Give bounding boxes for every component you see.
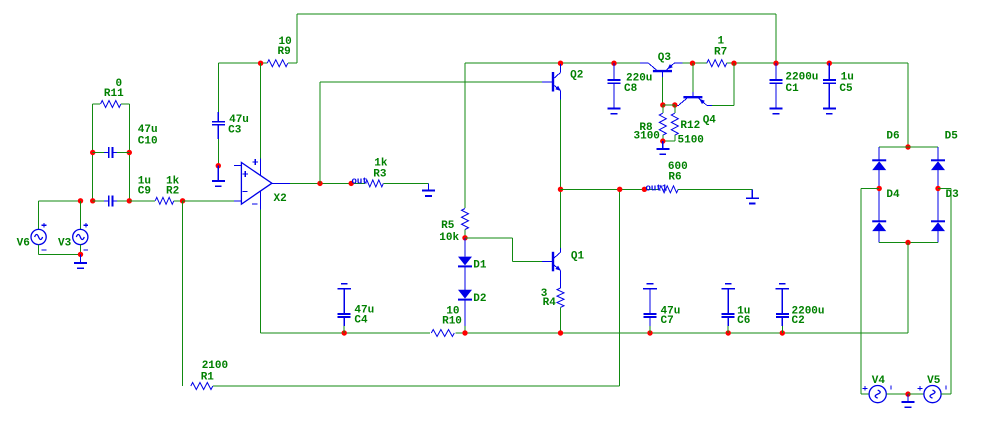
wire V5 right lead (941, 393, 951, 395)
wire R11 right (121, 103, 129, 105)
wire opamp V- supply down (260, 209, 262, 333)
wire V3 top lead (79, 201, 81, 230)
wire V3 bottom lead (79, 245, 81, 255)
svg-text:3100: 3100 (634, 131, 660, 143)
node R5/D1 junction (462, 235, 467, 240)
ground below V3 (74, 254, 87, 268)
svg-text:1k: 1k (374, 157, 388, 169)
opamp V+ marker (252, 159, 258, 165)
node R7 left / Q4 base (690, 61, 695, 66)
V6 minus marker (42, 249, 47, 251)
svg-text:C10: C10 (138, 135, 158, 147)
wire bridge bottom (879, 242, 938, 244)
node C3/opamp+ junction (216, 163, 221, 168)
wire loop right branch (128, 104, 130, 201)
svg-text:C5: C5 (839, 83, 853, 95)
svg-text:C8: C8 (624, 83, 638, 95)
resistor R5 (462, 209, 469, 230)
transistor Q1 (542, 248, 561, 288)
resistor R3 (365, 180, 383, 187)
wire C10 right (117, 152, 129, 154)
open terminal above C4 (337, 284, 351, 289)
wire to Q2 base (320, 81, 542, 83)
node loop right bottom (127, 198, 132, 203)
source V5 (924, 386, 941, 403)
wire C2 bottom lead (781, 326, 783, 333)
node R7 right (731, 61, 736, 66)
wire R3 to ground (383, 182, 428, 184)
wire bridge top (879, 146, 938, 148)
capacitor C5 (823, 63, 836, 108)
node output junction (317, 181, 322, 186)
resistor R2 (155, 197, 174, 204)
node R8 bottom junction (660, 138, 665, 143)
V6 plus marker (42, 223, 47, 228)
resistor R8 (659, 113, 666, 135)
capacitor C8 (608, 63, 621, 108)
node V+ junction (258, 61, 263, 66)
diode D6-D4 leads (878, 170, 880, 221)
node C5 top (827, 61, 832, 66)
wire to opamp - input (183, 200, 234, 202)
wire R8-R12 bottoms (663, 140, 675, 142)
wire V4 left lead (861, 393, 869, 395)
wire down to R5 (464, 63, 466, 208)
wire R12 top lead (674, 105, 676, 113)
node Q2 collector (558, 61, 563, 66)
svg-text:Q2: Q2 (570, 69, 583, 81)
wire (511, 238, 513, 262)
V4 minus marker (890, 386, 892, 390)
svg-text:R6: R6 (668, 172, 681, 184)
resistor R7 (707, 60, 727, 67)
opamp - input marker (242, 191, 247, 193)
svg-text:out1: out1 (646, 183, 668, 193)
opamp V- marker (252, 203, 257, 205)
node C8 top (611, 61, 616, 66)
wire (775, 14, 777, 63)
wire out1 to Q1 collector (560, 189, 562, 248)
node C2 bottom (780, 330, 785, 335)
wire C10 left (93, 152, 104, 154)
node Q2e/Q1c junction (558, 187, 563, 192)
wire to V5 (908, 393, 924, 395)
wire to R2 (129, 200, 155, 202)
svg-text:D4: D4 (886, 189, 900, 201)
svg-text:D2: D2 (473, 293, 486, 305)
diode D1 (458, 257, 472, 267)
svg-text:R12: R12 (680, 120, 700, 132)
svg-text:1u: 1u (841, 72, 854, 84)
wire top feedback rail (297, 13, 776, 15)
svg-text:V6: V6 (17, 237, 30, 249)
node C6 bottom (726, 330, 731, 335)
svg-text:X2: X2 (274, 193, 287, 205)
node inverting input junction (180, 198, 185, 203)
resistor R9 (267, 60, 288, 67)
wire down to V4 (860, 189, 862, 395)
V3 plus marker (84, 223, 89, 228)
transistor Q2 (542, 64, 561, 100)
wire C6 bottom lead (727, 326, 729, 333)
svg-text:D5: D5 (945, 130, 959, 142)
ground right of R3 (422, 183, 435, 196)
wire +V rail right part (727, 62, 908, 64)
wire up to out1 node (619, 189, 621, 386)
op-amp X2 (234, 158, 290, 209)
wire opamp V+ supply (260, 63, 262, 158)
capacitor C9 (104, 195, 117, 206)
node D2/R10 junction (462, 330, 467, 335)
wire (296, 14, 298, 63)
svg-text:out: out (352, 176, 368, 186)
wire C9 right (117, 200, 129, 202)
svg-text:Q3: Q3 (658, 52, 672, 64)
wire output up to base row (319, 82, 321, 183)
V5 minus marker (945, 386, 947, 390)
node loop left bottom (90, 198, 95, 203)
capacitor C3 (212, 112, 225, 139)
diode D4 (872, 221, 886, 231)
wire V6 top lead (38, 201, 40, 230)
ground below C8 (608, 98, 621, 114)
open terminal above C6 (721, 284, 735, 289)
ground between V4 V5 (902, 394, 915, 407)
svg-text:R11: R11 (104, 88, 124, 100)
wire V4 to ground node (886, 393, 908, 395)
node bridge left mid (877, 186, 882, 191)
svg-text:R1: R1 (201, 372, 215, 384)
diode D3 lead (937, 231, 939, 242)
node bridge right mid (935, 186, 940, 191)
svg-text:D3: D3 (946, 189, 960, 201)
wire bottom rail right (456, 332, 909, 334)
node R12 top (672, 102, 677, 107)
svg-text:C7: C7 (661, 315, 674, 327)
node R4 bottom (558, 330, 563, 335)
wire R6 to ground (678, 188, 752, 190)
diode D2 bottom lead (464, 300, 466, 326)
wire R7 right down (733, 63, 735, 105)
svg-text:V4: V4 (872, 375, 886, 387)
diode D2 (458, 290, 472, 300)
node V4/V5 ground junction (905, 391, 910, 396)
open terminal above C2 (776, 284, 790, 289)
wire R12 bottom lead (674, 135, 676, 141)
svg-text:D1: D1 (473, 260, 487, 272)
node bridge bottom (905, 240, 910, 245)
V5 plus marker (918, 386, 923, 391)
wire R11 left (93, 103, 101, 105)
wire C9 left (93, 200, 104, 202)
V4 plus marker (863, 386, 868, 391)
resistor R4 (557, 288, 564, 307)
wire R9 to top rail (288, 62, 297, 64)
diode D1 lead (464, 238, 466, 257)
svg-text:R10: R10 (442, 315, 462, 327)
capacitor C1 (770, 63, 783, 108)
svg-text:Q4: Q4 (703, 114, 717, 126)
wire +V rail at R7 left (683, 62, 707, 64)
resistor R6 (659, 186, 678, 193)
resistor R1 (191, 383, 213, 390)
wire loop left branch (92, 104, 94, 201)
svg-text:R3: R3 (373, 169, 387, 181)
open terminal above C7 (643, 284, 657, 289)
resistor R11 (101, 101, 121, 108)
node C4 bottom (342, 330, 347, 335)
wire bridge left tap (861, 188, 879, 190)
ground below C5 (823, 98, 836, 114)
wire down to C3 (217, 63, 219, 112)
wire Q4 base up (692, 63, 694, 92)
ground right of R6 (746, 189, 759, 203)
node V3 top junction (78, 198, 83, 203)
capacitor C7 (644, 289, 657, 326)
svg-text:2200u: 2200u (785, 72, 818, 84)
wire Q2 emitter down (560, 100, 562, 190)
wire out1 row (561, 188, 660, 190)
svg-text:1: 1 (718, 35, 725, 47)
V3 minus marker (84, 249, 89, 251)
svg-text:2100: 2100 (202, 360, 228, 372)
wire R5 bottom lead (464, 230, 466, 238)
node out label attach (349, 181, 354, 186)
resistor R12 (671, 113, 678, 135)
wire V6 to node (39, 200, 81, 202)
resistor R10 (431, 330, 454, 337)
svg-text:R4: R4 (543, 297, 557, 309)
wire R5 node to Q1 base (465, 237, 512, 239)
wire bridge bottom down (907, 243, 909, 334)
wire to Q4 emitter (712, 104, 734, 106)
wire C7 bottom lead (649, 326, 651, 333)
transistor Q3 (640, 63, 683, 77)
diode D5-D3 leads (937, 170, 939, 221)
wire R4 bottom lead (560, 307, 562, 333)
transistor Q4 (674, 92, 712, 105)
wire C4 bottom lead (343, 326, 345, 333)
source V4 (869, 386, 886, 403)
svg-text:C9: C9 (138, 186, 151, 198)
wire V+ node to R9 (218, 62, 267, 64)
capacitor C2 (776, 289, 789, 326)
diode D5 lead (937, 147, 939, 160)
capacitor C6 (722, 289, 735, 326)
svg-text:5100: 5100 (678, 134, 704, 146)
wire R8 bottom lead (662, 135, 664, 141)
svg-text:47u: 47u (138, 124, 158, 136)
svg-text:V3: V3 (58, 237, 72, 249)
svg-text:R2: R2 (166, 186, 179, 198)
node out1/R1 junction (617, 187, 622, 192)
wire C3 to junction (217, 139, 219, 166)
source V3 (73, 229, 88, 244)
diode D3 (931, 221, 945, 231)
wire R2 right (174, 200, 183, 202)
svg-text:V5: V5 (927, 375, 941, 387)
svg-text:Q1: Q1 (571, 251, 585, 263)
wire to Q1 base (512, 261, 542, 263)
source V6 (31, 229, 46, 244)
wire bridge right tap (938, 188, 951, 190)
wire +V rail left part (465, 62, 641, 64)
ground below R8 (656, 141, 669, 154)
capacitor C4 (338, 289, 351, 326)
node C7 bottom (647, 330, 652, 335)
node C10 left (90, 150, 95, 155)
diode D6 lead (878, 147, 880, 160)
svg-text:C3: C3 (228, 125, 242, 137)
wire to rail (464, 326, 466, 333)
svg-text:C4: C4 (354, 315, 368, 327)
svg-text:C2: C2 (792, 315, 805, 327)
ground at opamp + input (212, 166, 225, 187)
wire opamp output (290, 182, 365, 184)
capacitor C10 (104, 147, 117, 158)
svg-text:R5: R5 (441, 220, 455, 232)
wire down to R1 (182, 201, 184, 386)
wire R8 top lead (662, 105, 664, 113)
svg-text:R9: R9 (278, 46, 291, 58)
wire R8-R12 tops (663, 104, 675, 106)
node out1 label attach (642, 187, 647, 192)
wire +V rail down to bridge (907, 63, 909, 147)
node C10 right (127, 150, 132, 155)
diode D5 (931, 160, 945, 170)
wire down to V5 (950, 189, 952, 395)
svg-text:D6: D6 (886, 130, 899, 142)
ground below C1 (770, 98, 783, 114)
wire D1-D2 lead (464, 266, 466, 289)
diode D4 lead (878, 231, 880, 242)
svg-text:C6: C6 (737, 315, 750, 327)
svg-text:C1: C1 (786, 83, 800, 95)
node C1 top (773, 61, 778, 66)
opamp + input marker (242, 171, 248, 177)
wire V6 bottom lead (38, 245, 40, 255)
node bridge top (905, 144, 910, 149)
wire Q3 base down (661, 77, 663, 105)
svg-text:R7: R7 (714, 47, 727, 59)
wire V6 to ground node (39, 253, 81, 255)
diode D6 (872, 160, 886, 170)
wire R1 to out1 drop (213, 385, 620, 387)
svg-text:10k: 10k (439, 232, 459, 244)
node R8 top (660, 102, 665, 107)
wire bottom rail left (261, 332, 430, 334)
node source ground junction (78, 252, 83, 257)
